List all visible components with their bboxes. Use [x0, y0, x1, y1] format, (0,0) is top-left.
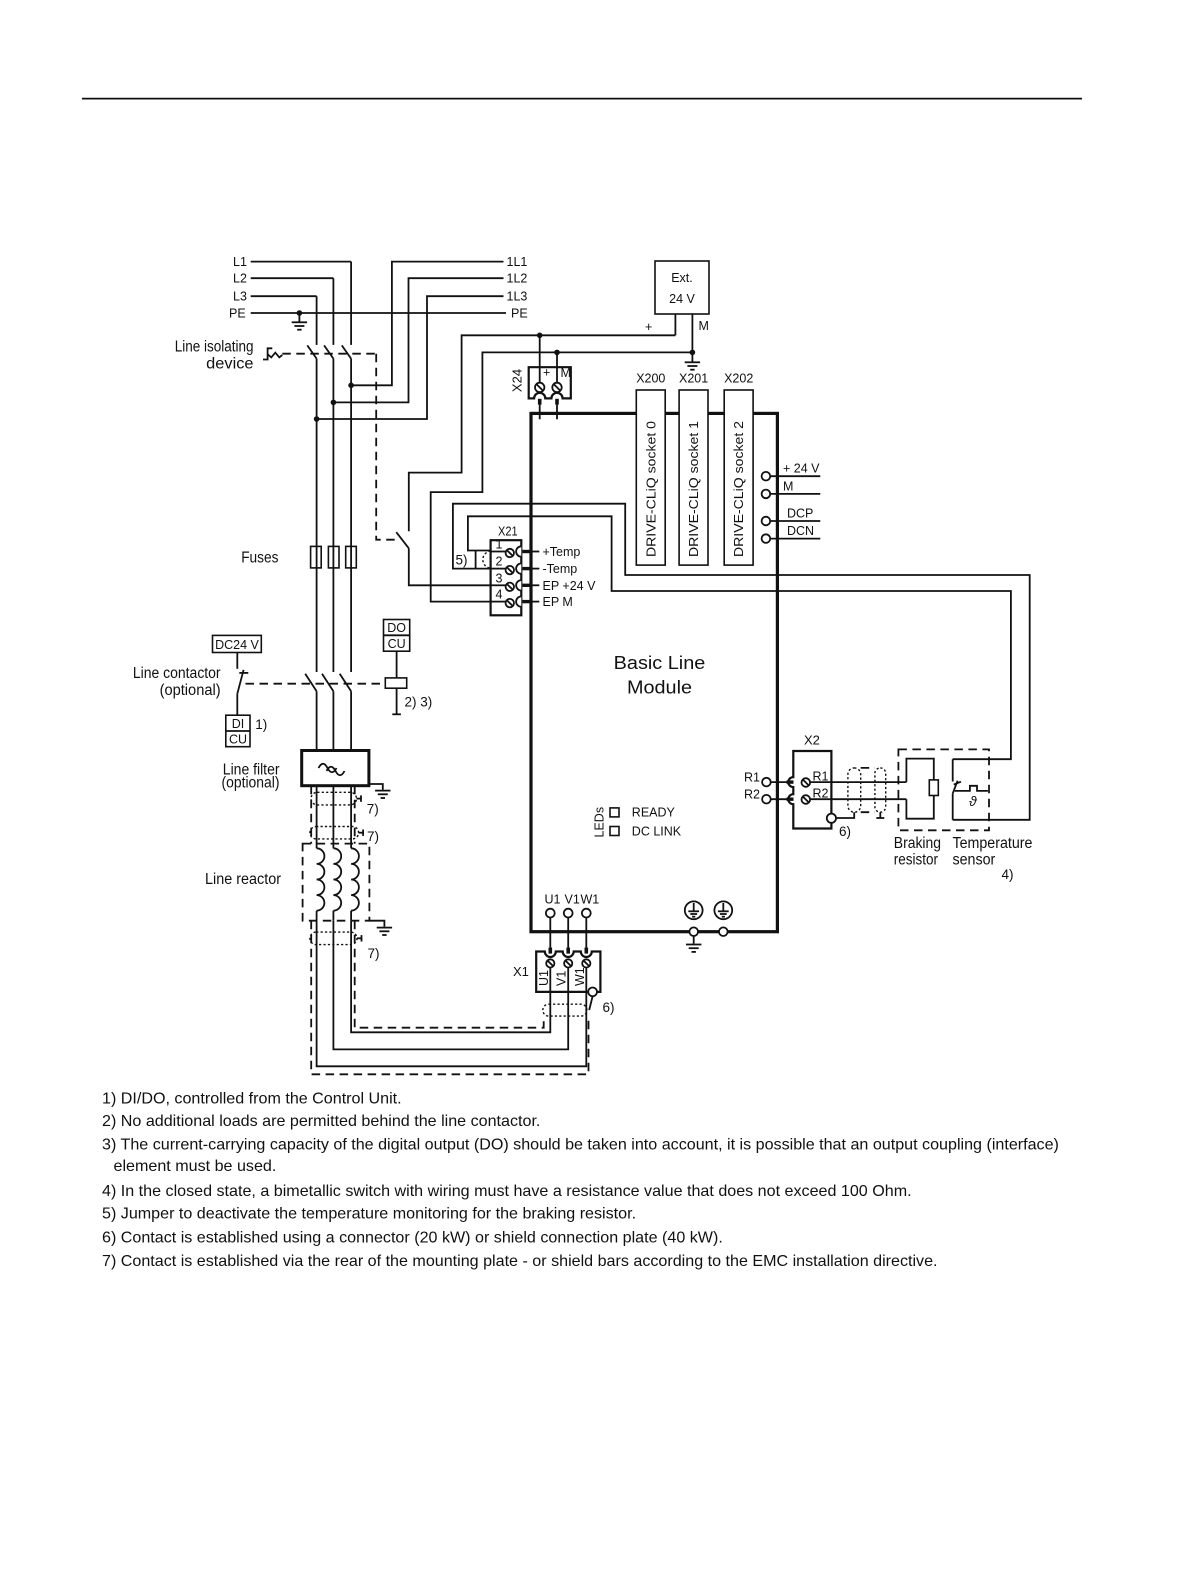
svg-text:W1: W1 [581, 893, 600, 907]
shield terminal circle at X1 (6) [588, 988, 597, 997]
wire L2 vertical (isolator to contactor) [332, 359, 334, 672]
protective earth terminal at module bottom (x=693.7) [685, 901, 703, 936]
cable shield ellipse 1 [848, 768, 861, 812]
block DI / CU [226, 715, 250, 747]
dashed mechanical link line contactor [246, 683, 386, 685]
svg-text:Line isolating: Line isolating [175, 339, 254, 356]
X21 pin 2 (-Temp) [491, 555, 578, 577]
top rule [82, 98, 1082, 100]
braking resistor / temperature sensor dashed enclosure [898, 749, 989, 830]
svg-text:7): 7) [367, 829, 379, 844]
junction dot L3/1L3 [314, 416, 320, 422]
svg-text:DO: DO [387, 621, 406, 635]
svg-text:2: 2 [496, 555, 503, 569]
svg-text:DCP: DCP [787, 507, 813, 521]
svg-text:DI: DI [232, 717, 245, 731]
manual actuator symbol line isolating device [263, 348, 272, 359]
shield terminal circle at X2 (6) [827, 814, 836, 823]
ground symbol after reactor [377, 928, 392, 935]
inductor coil line reactor phase L2 [333, 848, 341, 910]
wire Ext24V M lead [691, 314, 693, 352]
svg-text:X24: X24 [510, 369, 525, 392]
svg-text:(optional): (optional) [222, 775, 280, 792]
svg-text:Fuses: Fuses [241, 550, 279, 567]
inductor coil line reactor phase L1 [351, 848, 359, 910]
svg-text:+: + [543, 366, 550, 380]
wire L3 vertical (filter to reactor coil) [316, 786, 318, 849]
cable shield ellipse 2 [875, 768, 886, 812]
wire EP+24V to X21 pin 3 [409, 548, 491, 585]
svg-text:+ 24 V: + 24 V [783, 462, 820, 476]
wire DO to coil [396, 651, 398, 678]
svg-text:6): 6) [603, 1000, 615, 1015]
wire +24V rail [409, 335, 676, 531]
wire L2 vertical (contactor to line filter) [332, 691, 334, 750]
svg-text:+: + [645, 320, 652, 334]
wire L3 vertical (isolator to contactor) [316, 359, 318, 672]
wire L2 horizontal [251, 277, 334, 279]
shield ground tick [879, 812, 881, 818]
svg-text:7): 7) [367, 802, 379, 817]
wire L1 vertical (isolator to contactor) [350, 359, 352, 672]
screw terminal X24.+ [535, 383, 544, 392]
fuse F2 L2 phase [328, 546, 339, 568]
wire X21.1 +Temp external run [468, 516, 1011, 759]
svg-text:1: 1 [496, 538, 503, 552]
dashed shield boundary right/inner [354, 786, 356, 844]
wire R1 to braking resistor [831, 781, 906, 783]
ground symbol below left PE terminal [686, 936, 701, 952]
svg-text:L1: L1 [233, 255, 247, 269]
svg-text:Basic Line: Basic Line [614, 653, 706, 673]
svg-text:L3: L3 [233, 290, 247, 304]
connector X201 DRIVE-CLiQ socket 1 [679, 372, 708, 566]
terminal DCN [762, 524, 821, 543]
wire L1 vertical (filter to reactor coil) [350, 786, 352, 849]
svg-text:ϑ: ϑ [969, 793, 978, 809]
svg-text:CU: CU [388, 637, 406, 651]
connector X2 [788, 733, 831, 829]
svg-text:X1: X1 [513, 964, 529, 979]
svg-text:Line contactor: Line contactor [133, 665, 221, 682]
svg-text:EP M: EP M [543, 595, 573, 609]
svg-text:PE: PE [511, 307, 528, 321]
switch blade line contactor pole L3 [305, 674, 316, 692]
svg-text:device: device [206, 356, 253, 373]
wire L1 vertical below reactor [350, 911, 352, 921]
switch blade line isolating device pole L2 [324, 345, 333, 358]
X1 pin V1 [555, 959, 573, 992]
svg-text:Temperature: Temperature [953, 835, 1033, 852]
connector X21 [491, 524, 522, 616]
terminal DCP [762, 507, 821, 526]
svg-text:7) Contact is established via: 7) Contact is established via the rear o… [102, 1252, 938, 1270]
svg-text:DRIVE-CLiQ socket 0: DRIVE-CLiQ socket 0 [644, 421, 658, 557]
junction PE ground dot [297, 310, 303, 316]
svg-text:DC24 V: DC24 V [215, 638, 259, 652]
X1 pin W1 [573, 959, 591, 992]
wire L3 vertical (contactor to line filter) [316, 691, 318, 750]
terminal M [762, 479, 821, 498]
screw terminal X24.M [552, 383, 561, 392]
svg-text:6): 6) [839, 824, 851, 839]
connector X202 DRIVE-CLiQ socket 2 [724, 372, 753, 566]
wire coil stub [396, 688, 398, 714]
wire L3 vertical upper (to isolating switch) [316, 296, 318, 345]
svg-text:X21: X21 [498, 524, 518, 539]
svg-text:R2: R2 [744, 788, 760, 802]
svg-text:W1: W1 [573, 967, 587, 986]
wire reactor ground [369, 921, 384, 927]
svg-text:1L2: 1L2 [507, 272, 528, 286]
svg-text:L2: L2 [233, 272, 247, 286]
wire L2 vertical upper (to isolating switch) [332, 278, 334, 345]
wire L1 vertical upper (to isolating switch) [350, 262, 352, 345]
wire X24.M into module with arrow [556, 399, 558, 419]
svg-text:U1: U1 [537, 970, 551, 986]
shield clamp 7) first [311, 792, 357, 805]
svg-text:sensor: sensor [953, 852, 996, 869]
svg-text:DRIVE-CLiQ socket 2: DRIVE-CLiQ socket 2 [732, 421, 746, 557]
svg-text:4): 4) [1002, 867, 1014, 882]
wire filter ground [369, 784, 383, 790]
wire R2 to braking resistor [831, 798, 906, 800]
svg-text:X202: X202 [724, 372, 753, 386]
terminal + 24 V [762, 462, 821, 481]
wire X21.2 -Temp external run [453, 504, 1030, 820]
svg-text:V1: V1 [565, 893, 580, 907]
wire V1 run (L2 to X1.V1) [333, 921, 568, 1050]
wire L3 vertical below reactor [316, 911, 318, 921]
X21 pin 3 (EP +24 V) [491, 571, 596, 593]
fuse F1 L3 phase [311, 546, 322, 568]
svg-text:V1: V1 [555, 971, 569, 986]
switch blade line isolating device pole L3 [307, 345, 316, 358]
dashed mechanical link isolating device (horizontal) [282, 353, 376, 355]
dashed shield links [861, 767, 875, 769]
svg-text:EP +24 V: EP +24 V [543, 579, 597, 593]
svg-text:Braking: Braking [894, 835, 941, 852]
X21 pin 1 (+Temp) [491, 538, 581, 560]
svg-text:DRIVE-CLiQ socket 1: DRIVE-CLiQ socket 1 [687, 421, 701, 557]
svg-text:5) Jumper to deactivate the te: 5) Jumper to deactivate the temperature … [102, 1205, 636, 1223]
power supply Ext. 24 V [655, 261, 709, 314]
shield clamp at X1 cable [543, 1004, 587, 1016]
junction dot M rail to X24 [554, 350, 560, 356]
Basic Line Module enclosure [531, 413, 777, 931]
switch blade line contactor pole L1 [340, 674, 351, 692]
svg-text:U1: U1 [545, 893, 561, 907]
braking resistor loop [906, 759, 933, 819]
svg-text:DCN: DCN [787, 524, 814, 538]
jumper plug dotted arc [483, 551, 491, 568]
shield clamp 7) second [310, 827, 359, 839]
LED READY [610, 808, 619, 817]
jumper (5) across X21.1-X21.2 [475, 551, 477, 569]
resistor element [929, 780, 938, 796]
svg-text:Module: Module [627, 678, 692, 698]
svg-text:1): 1) [255, 717, 267, 732]
junction dot L2/1L2 [331, 400, 337, 406]
svg-text:element must be used.: element must be used. [114, 1157, 277, 1175]
wire L1 vertical (contactor to line filter) [350, 691, 352, 750]
wire L2 vertical below reactor [332, 911, 334, 921]
wire U1 run (L1 to X1.U1) [351, 921, 550, 1033]
dashed shield boundary left [310, 786, 312, 844]
junction dot L1/1L1 [348, 383, 354, 389]
ground symbol on PE [292, 313, 307, 330]
junction dot M to ground [690, 350, 696, 356]
inductor coil line reactor phase L3 [317, 848, 325, 910]
X2 pin R1 [802, 778, 811, 787]
shield clamp 7) third [310, 932, 357, 945]
line reactor dashed enclosure [303, 844, 370, 921]
svg-text:-Temp: -Temp [543, 562, 578, 576]
svg-text:M: M [783, 479, 793, 493]
junction dot +24V rail to X24 [537, 333, 543, 339]
svg-text:(optional): (optional) [160, 682, 221, 699]
svg-text:Ext.: Ext. [671, 271, 693, 285]
svg-text:X2: X2 [804, 733, 820, 748]
temperature sensor bimetallic switch [953, 759, 988, 820]
block DO / CU [384, 620, 410, 652]
line filter box [302, 751, 369, 786]
wire 1L3 horizontal and drop [317, 296, 504, 419]
wire W1 run (L3 to X1.W1) [317, 921, 587, 1067]
LED DC LINK [610, 827, 619, 836]
contactor coil [385, 678, 406, 688]
switch blade EP contact (aux of isolating device) [396, 532, 409, 548]
svg-text:X200: X200 [636, 372, 665, 386]
X21 pin 4 (EP M) [491, 588, 573, 610]
svg-text:4: 4 [496, 588, 503, 602]
switch blade line contactor pole L2 [322, 674, 333, 692]
svg-text:24 V: 24 V [669, 292, 695, 306]
connector X24 [510, 335, 571, 419]
ground symbol Ext24V M [685, 352, 700, 369]
svg-text:Line reactor: Line reactor [205, 871, 281, 888]
dashed mechanical link isolating device (vertical to EP switch) [376, 354, 397, 540]
svg-text:6) Contact is established usin: 6) Contact is established using a connec… [102, 1229, 723, 1247]
switch blade contactor aux contact [237, 670, 243, 694]
fuse F3 L1 phase [346, 546, 357, 568]
protective earth terminal at module bottom (x=723.3) [714, 901, 732, 936]
connector X200 DRIVE-CLiQ socket 0 [636, 372, 665, 566]
filter symbol [319, 764, 337, 773]
svg-text:7): 7) [368, 946, 380, 961]
wire 1L1 horizontal and drop [351, 262, 503, 386]
svg-text:READY: READY [632, 806, 676, 820]
connector X1 [513, 952, 600, 992]
svg-text:3: 3 [496, 571, 503, 585]
svg-text:X201: X201 [679, 372, 708, 386]
wire PE horizontal [251, 312, 506, 314]
svg-text:4) In the closed state, a bime: 4) In the closed state, a bimetallic swi… [102, 1182, 912, 1200]
switch blade line isolating device pole L1 [342, 345, 351, 358]
wire M rail [431, 352, 693, 601]
wire L1 horizontal [251, 261, 351, 263]
svg-text:2) 3): 2) 3) [405, 695, 433, 710]
control source DC24 V box [213, 635, 262, 652]
svg-text:R1: R1 [744, 771, 760, 785]
svg-text:3) The current-carrying capaci: 3) The current-carrying capacity of the … [102, 1136, 1059, 1154]
svg-text:1) DI/DO, controlled from the: 1) DI/DO, controlled from the Control Un… [102, 1090, 402, 1108]
svg-text:2) No additional loads are per: 2) No additional loads are permitted beh… [102, 1112, 540, 1130]
svg-text:LEDs: LEDs [593, 807, 607, 838]
X1 pin U1 [537, 959, 555, 992]
svg-text:M: M [699, 319, 709, 333]
wire DC24V down [236, 653, 238, 669]
wire aux contact to DI [236, 694, 238, 715]
wire X24.+ into module with arrow [539, 399, 541, 419]
svg-text:1L1: 1L1 [507, 255, 528, 269]
svg-text:resistor: resistor [894, 852, 938, 869]
svg-text:1L3: 1L3 [507, 290, 528, 304]
ground symbol after filter [375, 791, 390, 798]
svg-text:+Temp: +Temp [543, 545, 581, 559]
svg-text:M: M [561, 366, 571, 380]
wire L3 horizontal [251, 295, 317, 297]
svg-text:CU: CU [229, 733, 247, 747]
wire Ext24V plus lead [674, 314, 676, 335]
X2 pin R2 [802, 795, 811, 804]
wire 1L2 horizontal and drop [333, 278, 503, 402]
svg-text:PE: PE [229, 307, 246, 321]
svg-text:DC LINK: DC LINK [632, 825, 682, 839]
wire L2 vertical (filter to reactor coil) [332, 786, 334, 849]
svg-text:5): 5) [456, 553, 468, 568]
